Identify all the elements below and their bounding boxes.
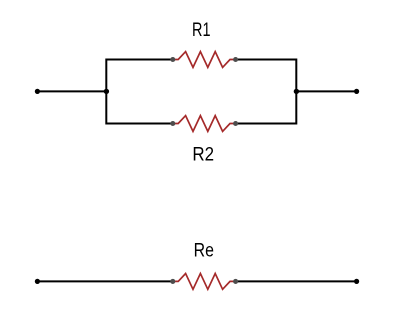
svg-text:Re: Re — [194, 240, 214, 262]
svg-text:R1: R1 — [192, 19, 211, 41]
svg-text:R2: R2 — [192, 144, 214, 166]
